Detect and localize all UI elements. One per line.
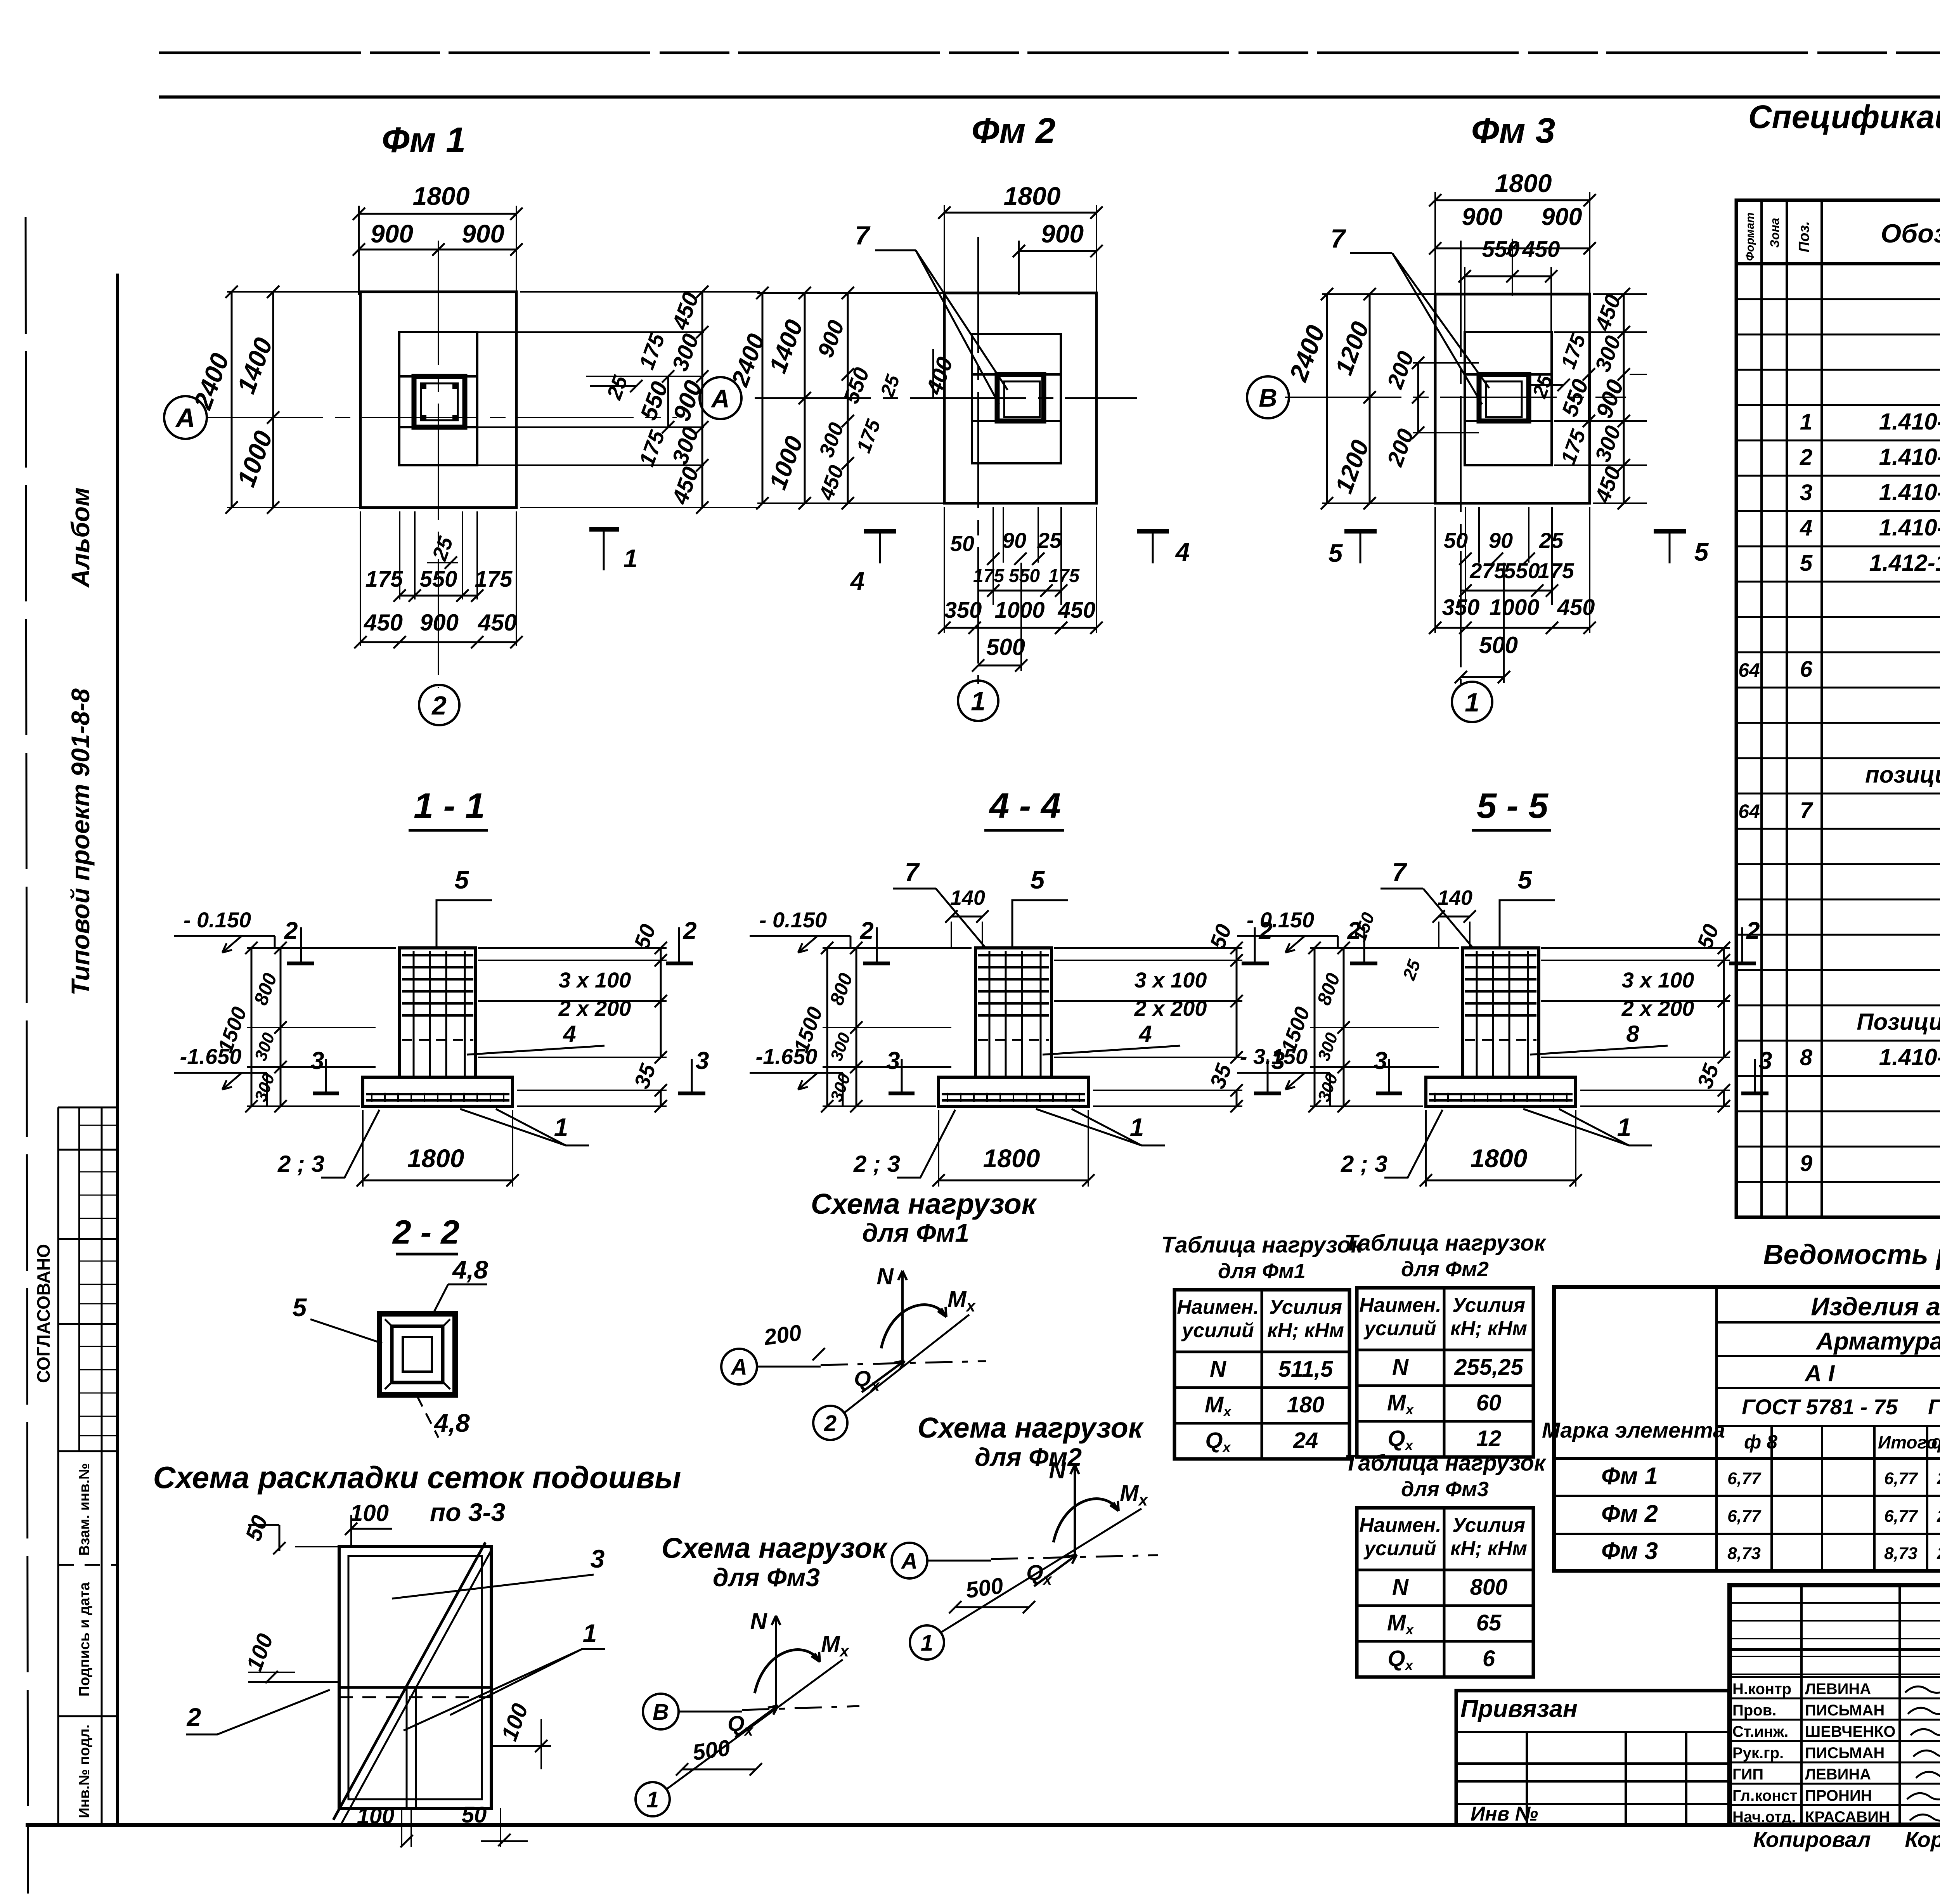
svg-text:Спецификация монолитных фунд: Спецификация монолитных фундаментов — [1748, 99, 1940, 135]
svg-text:511,5: 511,5 — [1278, 1357, 1334, 1382]
right ext lines Fm3 — [1593, 293, 1647, 295]
column of section 5 - 5 — [1463, 948, 1539, 1077]
left dim 1500 4 - 4 — [826, 948, 828, 1106]
right ext lines 50 5 - 5 — [1541, 947, 1730, 949]
outer footing rect Fm2 — [944, 293, 1096, 503]
svg-text:4: 4 — [563, 1021, 576, 1047]
svg-text:- 0.150: - 0.150 — [1247, 908, 1314, 932]
svg-text:3: 3 — [695, 1047, 709, 1074]
svg-text:- 0.150: - 0.150 — [184, 908, 251, 932]
svg-text:Фм 1: Фм 1 — [382, 120, 466, 160]
svg-text:4: 4 — [1175, 537, 1190, 566]
svg-text:2: 2 — [1746, 917, 1760, 944]
svg-text:Таблица нагрузок: Таблица нагрузок — [1344, 1230, 1547, 1256]
svg-text:Н.контр: Н.контр — [1732, 1681, 1791, 1698]
force Qx arrow — [862, 1361, 904, 1392]
force Qx arrow — [735, 1706, 778, 1737]
left dims 1400 1000 Fm1 — [272, 292, 274, 508]
svg-text:кН; кНм: кН; кНм — [1450, 1537, 1527, 1560]
svg-text:1800: 1800 — [1471, 1144, 1528, 1173]
svg-text:Инв.№ подл.: Инв.№ подл. — [76, 1724, 93, 1818]
leader 4 1 - 1 — [467, 1046, 605, 1055]
load table для Фм3 grid — [1357, 1508, 1533, 1677]
mesh inner horizontal bar — [339, 1686, 491, 1689]
svg-text:1800: 1800 — [407, 1144, 464, 1173]
svg-text:Наимен.: Наимен. — [1359, 1294, 1441, 1317]
svg-text:3: 3 — [591, 1544, 605, 1573]
dim 100 top — [351, 1528, 392, 1530]
svg-text:N: N — [1392, 1575, 1409, 1600]
svg-text:1 - 1: 1 - 1 — [414, 786, 485, 826]
svg-text:7: 7 — [1800, 798, 1814, 823]
diagonal axis line — [667, 1660, 843, 1789]
outer footing rect Fm1 — [360, 292, 516, 508]
svg-text:800: 800 — [1470, 1575, 1508, 1600]
svg-text:5: 5 — [1518, 865, 1533, 894]
svg-text:усилий: усилий — [1363, 1537, 1436, 1560]
svg-text:900: 900 — [371, 219, 413, 248]
mesh inner vertical bar — [415, 1687, 417, 1809]
svg-text:для Фм2: для Фм2 — [975, 1443, 1082, 1471]
outer footing rect Fm3 — [1435, 294, 1590, 503]
svg-text:1: 1 — [646, 1787, 659, 1812]
svg-text:140: 140 — [950, 886, 985, 910]
column section thick square Fm1 — [414, 376, 465, 427]
left dim 1500 1 - 1 — [251, 948, 253, 1106]
middle step rect Fm1 — [399, 332, 477, 465]
leader 5 4 - 4 — [1012, 900, 1068, 948]
svg-text:СОГЛАСОВАНО: СОГЛАСОВАНО — [33, 1244, 54, 1383]
middle step rect Fm2 — [972, 334, 1061, 463]
svg-text:500: 500 — [964, 1573, 1005, 1603]
left dims 800 300 300 4 - 4 — [856, 948, 857, 1106]
svg-text:1.410-2, Вып. 1: 1.410-2, Вып. 1 — [1879, 444, 1940, 470]
section mark 5 left Fm3 — [1344, 529, 1377, 534]
svg-text:100: 100 — [357, 1804, 395, 1829]
svg-text:64: 64 — [1738, 659, 1760, 681]
right extension lines Fm1 — [520, 291, 760, 293]
column thick square Fm2 — [997, 374, 1044, 421]
svg-text:50: 50 — [1444, 528, 1468, 553]
right dim 50 1 - 1 — [660, 948, 662, 960]
diagonal axis line — [941, 1509, 1141, 1632]
svg-text:1: 1 — [1130, 1113, 1144, 1142]
left dim 2400 Fm2 — [762, 293, 764, 503]
title block row Нач.отд. Красавин — [1730, 1804, 1940, 1806]
left stamp column lines — [57, 1107, 59, 1825]
svg-text:500: 500 — [986, 634, 1025, 660]
spec table header row — [1736, 262, 1940, 265]
section mark 4 right Fm2 — [1137, 529, 1169, 534]
moment Mx arc — [1053, 1499, 1118, 1542]
svg-text:Позиции 1,2,3,5,7: Позиции 1,2,3,5,7 — [1857, 1009, 1940, 1035]
axis A horizontal line Fm1 — [207, 417, 677, 418]
steel table column lines — [1770, 1426, 1773, 1571]
svg-text:900: 900 — [1541, 203, 1582, 230]
svg-text:2 ; 3: 2 ; 3 — [853, 1151, 900, 1177]
svg-text:6,77: 6,77 — [1727, 1469, 1762, 1488]
svg-text:2 ; 3: 2 ; 3 — [1341, 1151, 1387, 1177]
svg-text:Инв №: Инв № — [1471, 1803, 1538, 1825]
svg-text:25,2: 25,2 — [1937, 1469, 1940, 1488]
svg-text:5 - 5: 5 - 5 — [1477, 786, 1549, 826]
svg-text:ПРОНИН: ПРОНИН — [1805, 1787, 1872, 1804]
column thick square Fm3 — [1479, 374, 1529, 421]
svg-text:9: 9 — [1800, 1151, 1812, 1176]
svg-text:ГИП: ГИП — [1732, 1766, 1763, 1783]
svg-text:3: 3 — [310, 1047, 324, 1074]
svg-text:5: 5 — [293, 1293, 307, 1322]
svg-text:усилий: усилий — [1181, 1319, 1254, 1342]
svg-text:2: 2 — [431, 691, 447, 720]
svg-text:ПИСЬМАН: ПИСЬМАН — [1805, 1745, 1885, 1762]
svg-text:для Фм3: для Фм3 — [1401, 1478, 1489, 1501]
axis 1 vertical Fm3 — [1460, 241, 1462, 684]
svg-text:4: 4 — [1800, 515, 1812, 541]
svg-text:2: 2 — [186, 1703, 201, 1731]
footing slab of section 5 - 5 — [1426, 1077, 1576, 1106]
svg-text:7: 7 — [1330, 224, 1346, 253]
svg-text:2: 2 — [859, 917, 873, 944]
left dims 1400 1000 Fm2 — [804, 293, 806, 503]
left dims 200 200 Fm3 — [1417, 363, 1419, 433]
axis circle B Fm3 — [1247, 376, 1289, 418]
right dim 50 5 - 5 — [1723, 948, 1725, 960]
svg-text:Фм 1: Фм 1 — [1601, 1463, 1658, 1490]
svg-text:275: 275 — [1469, 558, 1506, 583]
svg-text:6,77: 6,77 — [1884, 1469, 1918, 1488]
force N arrow — [901, 1271, 904, 1362]
steel table outer — [1554, 1287, 1940, 1571]
svg-text:по 3-3: по 3-3 — [430, 1498, 505, 1526]
svg-text:Гл.конст: Гл.конст — [1732, 1787, 1797, 1804]
svg-text:N: N — [1049, 1457, 1066, 1483]
svg-text:500: 500 — [1479, 632, 1518, 658]
middle step rect Fm3 — [1465, 332, 1552, 465]
svg-text:2 х 200: 2 х 200 — [1134, 996, 1207, 1020]
svg-text:3: 3 — [886, 1047, 900, 1074]
svg-text:Усилия: Усилия — [1452, 1514, 1525, 1537]
axis circle 1 — [910, 1625, 944, 1660]
svg-text:Усилия: Усилия — [1452, 1294, 1525, 1317]
svg-text:N: N — [876, 1263, 894, 1289]
svg-text:1.410-2, Вып. 1: 1.410-2, Вып. 1 — [1879, 409, 1940, 435]
svg-text:Схема нагрузок: Схема нагрузок — [811, 1188, 1038, 1220]
svg-text:5: 5 — [1800, 551, 1813, 576]
steel table marka column — [1715, 1287, 1718, 1571]
title block ТП 901-8-8 row — [1730, 1648, 1940, 1651]
svg-text:1.410-2, Вып. 1: 1.410-2, Вып. 1 — [1879, 1044, 1940, 1070]
load table для Фм2 grid — [1357, 1288, 1533, 1457]
svg-text:64: 64 — [1738, 800, 1760, 822]
svg-text:3: 3 — [1800, 480, 1812, 505]
svg-text:А: А — [175, 403, 196, 433]
svg-text:для Фм1: для Фм1 — [1218, 1260, 1306, 1283]
svg-text:Наимен.: Наимен. — [1359, 1514, 1441, 1537]
column of section 4 - 4 — [975, 948, 1051, 1077]
left dim 2400 Fm3 — [1326, 294, 1328, 503]
svg-text:усилий: усилий — [1363, 1317, 1436, 1340]
svg-text:кН; кНм: кН; кНм — [1450, 1317, 1527, 1340]
svg-text:900: 900 — [1462, 203, 1502, 230]
svg-text:450: 450 — [1522, 237, 1560, 262]
svg-text:N: N — [1392, 1355, 1409, 1380]
svg-text:550: 550 — [1482, 237, 1520, 262]
svg-text:Зона: Зона — [1768, 218, 1782, 248]
svg-text:ЛЕВИНА: ЛЕВИНА — [1805, 1681, 1871, 1698]
svg-text:Формат: Формат — [1744, 212, 1756, 261]
svg-text:Фм 3: Фм 3 — [1601, 1538, 1658, 1564]
mesh diagonal bar — [333, 1542, 485, 1820]
svg-text:Фм 2: Фм 2 — [972, 111, 1056, 151]
leader 5 5 - 5 — [1500, 900, 1555, 948]
svg-text:N: N — [750, 1608, 767, 1634]
leader 5 1 - 1 — [436, 900, 492, 948]
axis A horizontal Fm2 — [755, 397, 1137, 399]
spec table row lines — [1736, 298, 1940, 300]
svg-text:12: 12 — [1476, 1426, 1502, 1451]
svg-text:ГОСТ 5781 - 75: ГОСТ 5781 - 75 — [1742, 1395, 1898, 1419]
svg-text:А: А — [710, 384, 730, 413]
right ext lines 50 1 - 1 — [478, 947, 667, 949]
svg-text:180: 180 — [1287, 1392, 1325, 1417]
sheet bottom border — [26, 1823, 1940, 1827]
title block row Пров. Письман — [1730, 1698, 1940, 1700]
svg-text:Поз.: Поз. — [1796, 221, 1812, 253]
axis circle A Fm1 — [164, 396, 207, 439]
svg-text:450: 450 — [364, 610, 403, 636]
svg-text:для Фм1: для Фм1 — [862, 1218, 969, 1247]
svg-text:8,73: 8,73 — [1884, 1544, 1917, 1563]
force N arrow — [775, 1616, 777, 1707]
svg-text:Корецкая: Корецкая — [1905, 1827, 1940, 1852]
title block signatures columns — [1800, 1585, 1803, 1825]
mesh outer rect — [339, 1547, 491, 1809]
svg-text:550: 550 — [420, 567, 457, 592]
svg-text:4,8: 4,8 — [433, 1409, 470, 1437]
svg-text:2: 2 — [824, 1411, 837, 1436]
svg-text:450: 450 — [478, 610, 517, 636]
leader 8 5 - 5 — [1530, 1046, 1668, 1055]
svg-text:Схема нагрузок: Схема нагрузок — [918, 1412, 1144, 1444]
svg-text:900: 900 — [1041, 219, 1084, 248]
force Qx arrow — [1034, 1555, 1077, 1586]
svg-text:5: 5 — [1329, 539, 1343, 567]
svg-text:2: 2 — [1800, 445, 1812, 470]
svg-text:Изделия арматурные: Изделия арматурные — [1811, 1292, 1940, 1321]
svg-text:А I: А I — [1804, 1360, 1835, 1386]
svg-text:ПИСЬМАН: ПИСЬМАН — [1805, 1702, 1885, 1719]
svg-text:24: 24 — [1293, 1428, 1318, 1453]
svg-text:25: 25 — [1037, 528, 1062, 553]
svg-text:2 ; 3: 2 ; 3 — [277, 1151, 324, 1177]
svg-text:500: 500 — [691, 1735, 732, 1765]
svg-text:350: 350 — [944, 598, 982, 623]
svg-text:25,2: 25,2 — [1937, 1507, 1940, 1526]
bottom leaders 1 4 - 4 — [1036, 1109, 1165, 1145]
svg-text:25,2: 25,2 — [1937, 1544, 1940, 1563]
svg-text:А: А — [730, 1355, 747, 1380]
svg-text:175: 175 — [973, 566, 1005, 586]
axis horizontal line — [927, 1560, 991, 1562]
left dim 1500 5 - 5 — [1314, 948, 1316, 1106]
axis circle 2 — [813, 1406, 847, 1440]
svg-text:2: 2 — [284, 917, 298, 944]
title block row Гл.конст Пронин — [1730, 1783, 1940, 1785]
svg-text:1: 1 — [1800, 409, 1812, 435]
svg-text:1.412-1/77 Вып.3: 1.412-1/77 Вып.3 — [1869, 550, 1940, 576]
svg-text:2: 2 — [682, 917, 696, 944]
svg-text:В: В — [653, 1700, 669, 1725]
force N arrow — [1074, 1465, 1076, 1556]
svg-text:175: 175 — [365, 567, 404, 592]
right dim 50 4 - 4 — [1236, 948, 1238, 960]
svg-text:1800: 1800 — [1495, 169, 1552, 198]
inner mesh rect 2-2 — [392, 1326, 443, 1383]
svg-text:Фм 2: Фм 2 — [1601, 1500, 1658, 1527]
axis circle 1 below Fm2 — [958, 681, 998, 721]
bottom leaders 1 5 - 5 — [1523, 1109, 1652, 1145]
svg-text:Ст.инж.: Ст.инж. — [1732, 1723, 1788, 1740]
svg-text:Пров.: Пров. — [1732, 1702, 1776, 1719]
svg-text:1: 1 — [583, 1619, 597, 1648]
left dim 2400 Fm1 — [231, 292, 233, 508]
svg-text:Усилия: Усилия — [1269, 1296, 1342, 1318]
svg-text:Подпись и дата: Подпись и дата — [76, 1582, 93, 1696]
svg-text:ф 10: ф 10 — [1931, 1431, 1940, 1453]
svg-text:Нач.отд.: Нач.отд. — [1732, 1809, 1796, 1826]
svg-text:6: 6 — [1483, 1646, 1495, 1671]
spec table outer and columns — [1736, 200, 1940, 1217]
axis circle 1 — [636, 1782, 670, 1816]
svg-text:50: 50 — [950, 531, 974, 556]
svg-text:8: 8 — [1800, 1045, 1813, 1070]
svg-text:Арматура класса: Арматура класса — [1815, 1328, 1940, 1355]
load table для Фм1 grid — [1174, 1290, 1349, 1459]
svg-text:Таблица нагрузок: Таблица нагрузок — [1161, 1232, 1363, 1258]
svg-text:КРАСАВИН: КРАСАВИН — [1805, 1809, 1890, 1826]
svg-text:1800: 1800 — [1004, 182, 1061, 210]
axis horizontal line — [679, 1711, 742, 1713]
svg-text:175: 175 — [1048, 566, 1080, 586]
svg-text:позиции 1÷ 6: позиции 1÷ 6 — [1865, 762, 1940, 788]
axis horizontal line — [757, 1366, 821, 1368]
svg-text:2 х 200: 2 х 200 — [1621, 996, 1694, 1020]
svg-text:350: 350 — [1442, 595, 1480, 620]
svg-text:7: 7 — [855, 221, 871, 250]
bottom extension lines Fm1 — [360, 511, 361, 646]
svg-text:4: 4 — [1138, 1021, 1152, 1047]
svg-text:В: В — [1259, 383, 1277, 412]
axis circle 2 below Fm1 — [419, 685, 459, 725]
svg-text:Рук.гр.: Рук.гр. — [1732, 1745, 1784, 1762]
privyazan outer — [1456, 1691, 1729, 1825]
title block row Н.контр Левина — [1730, 1676, 1940, 1678]
left dims 800 300 300 5 - 5 — [1343, 948, 1345, 1106]
left inner dims 900 300 450 550 175 Fm2 — [847, 293, 849, 503]
svg-text:1800: 1800 — [983, 1144, 1040, 1173]
bottom ext lines Fm2 — [944, 507, 945, 633]
svg-text:1: 1 — [921, 1630, 933, 1656]
svg-text:100: 100 — [350, 1500, 389, 1526]
svg-text:Таблица нагрузок: Таблица нагрузок — [1344, 1450, 1547, 1476]
svg-text:90: 90 — [1489, 528, 1513, 553]
svg-text:900: 900 — [420, 610, 459, 636]
svg-text:8,73: 8,73 — [1727, 1544, 1761, 1563]
svg-text:4 - 4: 4 - 4 — [989, 786, 1061, 826]
svg-text:6,77: 6,77 — [1727, 1507, 1762, 1526]
svg-text:25: 25 — [1539, 528, 1564, 553]
svg-text:6,77: 6,77 — [1884, 1507, 1918, 1526]
svg-text:65: 65 — [1476, 1610, 1502, 1635]
bottom ext lines Fm3 — [1434, 507, 1436, 633]
svg-text:2 - 2: 2 - 2 — [392, 1214, 459, 1251]
section mark 1 Fm1 — [589, 527, 619, 532]
svg-text:1000: 1000 — [994, 598, 1044, 623]
svg-text:3 х 100: 3 х 100 — [559, 968, 631, 992]
footing slab of section 4 - 4 — [939, 1077, 1088, 1106]
svg-text:3 х 100: 3 х 100 — [1622, 968, 1694, 992]
load scheme axis circle А — [892, 1543, 927, 1578]
section mark 5 right Fm3 — [1654, 529, 1686, 534]
title block row Ст.инж. Шевченко — [1730, 1719, 1940, 1721]
svg-text:ШЕВЧЕНКО: ШЕВЧЕНКО — [1805, 1723, 1895, 1740]
svg-text:5: 5 — [455, 865, 469, 894]
svg-text:Типовой проект 901-8-8: Типовой проект 901-8-8 — [66, 688, 95, 996]
svg-text:1.410-2, Вып. 1: 1.410-2, Вып. 1 — [1879, 515, 1940, 541]
svg-text:4,8: 4,8 — [452, 1255, 488, 1284]
left margin outer dashed border — [26, 217, 28, 1894]
axis B horizontal Fm3 — [1285, 397, 1626, 398]
right dim chain 450 300 900 300 450 Fm3 — [1623, 294, 1625, 503]
axis circle 1 below Fm3 — [1452, 682, 1492, 722]
leader lines 7 Fm3 — [1392, 253, 1489, 388]
svg-text:2 х 200: 2 х 200 — [558, 996, 631, 1020]
load scheme axis circle А — [721, 1349, 757, 1384]
mesh double border lines — [348, 1556, 482, 1799]
svg-text:Обозначение: Обозначение — [1881, 219, 1940, 248]
svg-text:Ведомость расхода стали на: Ведомость расхода стали на элемент, кг — [1763, 1239, 1940, 1270]
right inner dims 175 550 175 25 Fm1 — [667, 376, 669, 427]
title block small header rows left — [1730, 1602, 1940, 1604]
svg-text:8: 8 — [1626, 1021, 1639, 1047]
steel table data row lines — [1554, 1457, 1940, 1460]
sheet top border dashed line — [159, 52, 1940, 54]
svg-text:1: 1 — [1617, 1113, 1632, 1142]
svg-text:550: 550 — [1009, 566, 1040, 586]
svg-text:1800: 1800 — [413, 182, 470, 210]
slab bottom meshes 1 - 1 — [366, 1093, 509, 1095]
svg-text:Взам. инв.№: Взам. инв.№ — [76, 1463, 93, 1556]
axis circle A Fm2 — [700, 377, 741, 419]
right ext lines 50 4 - 4 — [1054, 947, 1242, 949]
left margin inner border — [116, 274, 119, 1825]
svg-text:5: 5 — [1694, 537, 1709, 566]
slab bottom meshes 5 - 5 — [1429, 1093, 1573, 1095]
svg-text:Привязан: Привязан — [1460, 1695, 1578, 1722]
axis line 1 vertical Fm2 — [977, 237, 979, 684]
svg-text:5: 5 — [1031, 865, 1045, 894]
footing slab of section 1 - 1 — [363, 1077, 513, 1106]
title block row ГИП Левина — [1730, 1762, 1940, 1764]
svg-text:50: 50 — [462, 1802, 487, 1828]
svg-text:450: 450 — [1557, 595, 1595, 620]
left stamp table rows — [58, 1107, 118, 1109]
svg-text:1: 1 — [554, 1113, 568, 1142]
left dims 800 300 300 1 - 1 — [280, 948, 282, 1106]
sheet top border solid line — [159, 95, 1940, 99]
anchor bolts Fm1 — [420, 383, 426, 389]
